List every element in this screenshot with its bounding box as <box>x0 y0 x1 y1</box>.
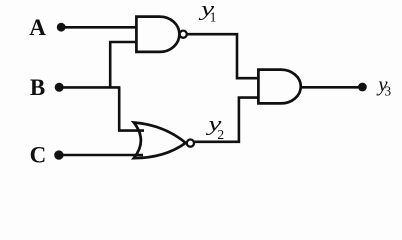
terminal dot y3 <box>358 83 367 92</box>
node A <box>29 15 46 40</box>
NAND gate U1 <box>136 17 179 52</box>
wire B horizontal <box>59 86 120 89</box>
svg-text:2: 2 <box>217 127 224 142</box>
svg-text:A: A <box>29 15 46 40</box>
svg-text:C: C <box>30 142 47 167</box>
node y1 label <box>198 0 216 24</box>
wire y2 to AND input 2 <box>194 98 258 142</box>
svg-text:3: 3 <box>384 84 391 99</box>
NAND output bubble <box>180 31 187 38</box>
NOR output bubble <box>187 140 194 147</box>
AND gate U3 <box>258 70 300 104</box>
wire B branch down to NOR input 1 <box>119 87 144 130</box>
svg-text:1: 1 <box>210 9 217 24</box>
node B <box>30 75 45 100</box>
node y2 label <box>206 112 225 142</box>
node C <box>30 142 47 167</box>
terminal dot C <box>54 150 63 159</box>
wire A to NAND input 1 <box>61 26 136 29</box>
terminal dot B <box>55 83 64 92</box>
node y3 label <box>376 72 391 99</box>
wire C to NOR input 2 <box>59 154 143 157</box>
NOR gate U2 <box>134 123 186 159</box>
wire y1 to AND input 1 <box>187 34 258 78</box>
wire AND output to y3 <box>301 86 362 89</box>
wire B branch up to NAND input 2 <box>110 42 136 87</box>
terminal dot A <box>57 23 66 32</box>
svg-text:B: B <box>30 75 45 100</box>
